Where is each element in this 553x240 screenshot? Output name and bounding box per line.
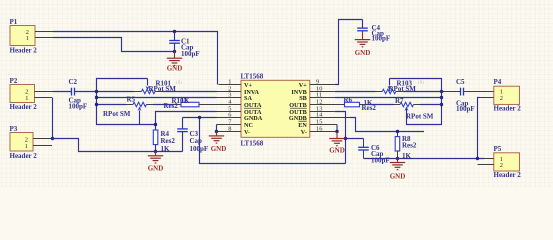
node EN V- junction xyxy=(335,130,338,133)
node C6 top junction xyxy=(344,137,347,140)
pin 13 xyxy=(289,105,335,116)
wire P2.1 down to P3 node xyxy=(52,98,54,139)
ground pin15/16 xyxy=(336,132,338,139)
svg-text:EN: EN xyxy=(298,122,307,129)
pin 14 xyxy=(289,111,350,122)
svg-text:GND: GND xyxy=(355,49,371,57)
potentiometer R103 xyxy=(382,79,424,94)
wire C2 to R101 xyxy=(75,91,134,93)
capacitor C3 xyxy=(177,118,208,153)
svg-text:1: 1 xyxy=(25,95,28,102)
svg-text:1K: 1K xyxy=(181,97,191,105)
node R4 bottom junction xyxy=(154,150,157,153)
svg-text:NC: NC xyxy=(244,122,253,129)
svg-text:100pF: 100pF xyxy=(190,145,209,153)
node C1 bottom junction xyxy=(173,50,176,53)
svg-text:RPot SM: RPot SM xyxy=(406,112,434,120)
pin 1 xyxy=(219,78,253,89)
svg-text:V+: V+ xyxy=(244,82,252,89)
header P2 xyxy=(10,77,54,111)
capacitor C2 xyxy=(69,78,88,110)
svg-text:100pF: 100pF xyxy=(372,35,391,43)
svg-text:LT1568: LT1568 xyxy=(241,139,264,147)
resistor R102 xyxy=(164,97,200,110)
wire R6 to R7 xyxy=(366,104,394,106)
wire P4.2 down to output rail xyxy=(478,98,480,159)
pin 3 xyxy=(217,91,253,102)
svg-text:GND: GND xyxy=(167,64,183,72)
ground symbol GND (EN/V-) xyxy=(329,139,345,155)
wire U1 OUTA-bar pin5 to R4 xyxy=(156,112,217,131)
svg-text:(R): (R) xyxy=(176,80,183,85)
capacitor C1 xyxy=(169,32,199,58)
svg-text:2: 2 xyxy=(500,162,503,169)
pin 7 xyxy=(217,118,253,129)
wire U1 SA pin3 row xyxy=(97,97,217,99)
pin 8 xyxy=(217,125,251,136)
pin 16 xyxy=(301,125,336,136)
svg-text:1: 1 xyxy=(25,143,28,150)
op-amp U1 LT1568 xyxy=(241,73,310,148)
wire U1 NC pin7 drop xyxy=(216,125,218,132)
node R8 bottom junction xyxy=(396,157,399,160)
wire R4 bottom lead xyxy=(155,145,157,152)
node bus-OUTA junction xyxy=(95,103,98,106)
wire P2.2 to C2 xyxy=(53,91,71,93)
header P4 xyxy=(494,78,522,112)
svg-text:P2: P2 xyxy=(10,77,18,85)
ground symbol GND (R4) xyxy=(148,156,164,173)
svg-text:V-: V- xyxy=(301,129,307,136)
svg-text:14: 14 xyxy=(316,111,323,118)
svg-text:RPot SM: RPot SM xyxy=(149,85,177,93)
header P1 xyxy=(10,18,54,54)
capacitor C6 xyxy=(346,139,390,165)
svg-text:1: 1 xyxy=(228,78,231,85)
svg-text:2: 2 xyxy=(500,95,503,102)
header P3 xyxy=(10,125,53,160)
svg-text:P4: P4 xyxy=(494,78,502,86)
resistor R4 xyxy=(153,130,175,153)
wire R101 to U1 INVA pin2 xyxy=(162,91,217,93)
svg-text:Header 2: Header 2 xyxy=(10,103,38,111)
svg-text:R6: R6 xyxy=(344,96,353,104)
svg-text:12: 12 xyxy=(316,98,322,105)
potentiometer R101 xyxy=(142,79,183,94)
wire wiper feedback bus xyxy=(97,79,156,125)
ground pin7/8 xyxy=(216,132,218,136)
wire output bottom rail to P5.1 xyxy=(364,158,485,160)
svg-text:16: 16 xyxy=(316,125,322,132)
svg-text:Res2: Res2 xyxy=(161,137,176,145)
wire V+ pin9 up to C4 xyxy=(335,20,363,85)
ground symbol GND (R8) xyxy=(390,163,406,181)
svg-text:R7: R7 xyxy=(395,97,404,105)
wire U1 OUTB-bar pin13 down to rail xyxy=(335,112,346,164)
svg-text:100pF: 100pF xyxy=(371,156,390,164)
svg-text:8: 8 xyxy=(228,125,231,132)
pin 5 xyxy=(217,105,262,116)
ground under C1 xyxy=(174,52,176,59)
node bus-INVA junction xyxy=(95,90,98,93)
wire U1 SB pin11 row xyxy=(335,97,442,99)
pin 10 xyxy=(291,85,334,96)
svg-text:P3: P3 xyxy=(10,125,18,133)
wire R103 to C5 xyxy=(402,91,444,93)
wire U1 EN pin15 drop xyxy=(336,125,338,132)
ground symbol GND (C1) xyxy=(167,58,183,72)
node bus-SA junction xyxy=(95,96,98,99)
svg-text:11: 11 xyxy=(316,91,322,98)
svg-text:RPot SM: RPot SM xyxy=(103,110,131,118)
svg-text:Header 2: Header 2 xyxy=(10,47,38,55)
node P4.2 rail junction xyxy=(476,157,479,160)
node wiper bus R4 junction xyxy=(154,123,157,126)
svg-text:GND: GND xyxy=(329,146,345,154)
svg-text:Header 2: Header 2 xyxy=(10,152,38,160)
node R8 top junction xyxy=(396,130,399,133)
svg-text:C5: C5 xyxy=(456,78,465,86)
svg-text:GND: GND xyxy=(211,145,227,153)
pin 6 xyxy=(217,111,263,122)
svg-text:R5: R5 xyxy=(127,96,136,104)
wire R5 to R102 xyxy=(153,104,174,106)
svg-text:Header 2: Header 2 xyxy=(494,105,522,113)
pin 9 xyxy=(299,78,335,89)
svg-text:Res2: Res2 xyxy=(362,104,377,112)
wire P4.2 stub xyxy=(480,97,494,99)
wire U1 GNDA pin6 row xyxy=(183,117,217,119)
wire P1.2 to C1 top and U1 V+ pin1 xyxy=(53,32,218,85)
node OUTB junction xyxy=(440,103,443,106)
svg-text:15: 15 xyxy=(316,118,322,125)
svg-text:(R): (R) xyxy=(418,80,425,85)
header P5 xyxy=(478,145,522,179)
svg-text:100pF: 100pF xyxy=(456,105,475,113)
svg-text:GND: GND xyxy=(148,164,164,172)
svg-text:GND: GND xyxy=(390,172,406,180)
capacitor C4 xyxy=(357,20,390,43)
svg-text:C2: C2 xyxy=(69,78,78,86)
ground under R4 xyxy=(155,152,157,156)
svg-text:LT1568: LT1568 xyxy=(241,73,264,81)
resistor R8 xyxy=(395,132,417,161)
wire R7 to bus xyxy=(420,104,442,106)
node pin7 pin8 junction xyxy=(215,130,218,133)
potentiometer R7 xyxy=(395,97,434,121)
svg-text:P1: P1 xyxy=(10,18,18,26)
potentiometer R5 xyxy=(103,96,146,125)
svg-text:Res2: Res2 xyxy=(164,102,179,110)
wire P1.1 to C1 bottom xyxy=(53,38,175,52)
pin 15 xyxy=(298,118,337,129)
wire R103/R7 wiper loop xyxy=(390,79,442,125)
svg-text:SA: SA xyxy=(244,95,252,102)
node P3.2 junction xyxy=(51,137,54,140)
wire U1 INVB pin10 to R103 xyxy=(335,91,376,93)
node C1 top junction xyxy=(173,30,176,33)
wire U1 GNDB pin14 to R8 row xyxy=(350,118,424,132)
ground symbol GND (C4) xyxy=(355,40,371,58)
svg-text:SB: SB xyxy=(299,95,307,102)
pin 4 xyxy=(199,98,262,109)
pin 12 xyxy=(289,98,344,109)
wire P3.2 to R4/C3 bottom rail xyxy=(52,139,183,152)
wire OUTA row to R5 xyxy=(97,104,127,106)
svg-text:6: 6 xyxy=(228,111,231,118)
resistor R6 xyxy=(344,96,377,112)
wire GNDA down along bottom rail xyxy=(200,118,346,164)
capacitor C5 xyxy=(456,78,475,113)
node INVB junction xyxy=(440,90,443,93)
svg-text:3: 3 xyxy=(228,91,231,98)
wire C5 to P4.1 xyxy=(464,91,494,93)
svg-text:V+: V+ xyxy=(299,82,307,89)
svg-text:V-: V- xyxy=(244,129,250,136)
pin 11 xyxy=(299,91,335,102)
svg-text:P5: P5 xyxy=(494,145,502,153)
ground under R8 xyxy=(397,159,399,163)
pin 2 xyxy=(217,85,260,96)
ground symbol GND (U1 V-) xyxy=(209,136,226,153)
svg-text:9: 9 xyxy=(316,78,319,85)
node GNDA junction xyxy=(198,116,201,119)
svg-text:100pF: 100pF xyxy=(181,50,200,58)
svg-text:GNDA: GNDA xyxy=(244,115,263,122)
svg-text:Header 2: Header 2 xyxy=(494,171,522,179)
svg-text:100pF: 100pF xyxy=(69,102,88,110)
node SB junction xyxy=(440,96,443,99)
svg-text:1: 1 xyxy=(26,35,29,42)
svg-text:Res2: Res2 xyxy=(402,142,417,150)
